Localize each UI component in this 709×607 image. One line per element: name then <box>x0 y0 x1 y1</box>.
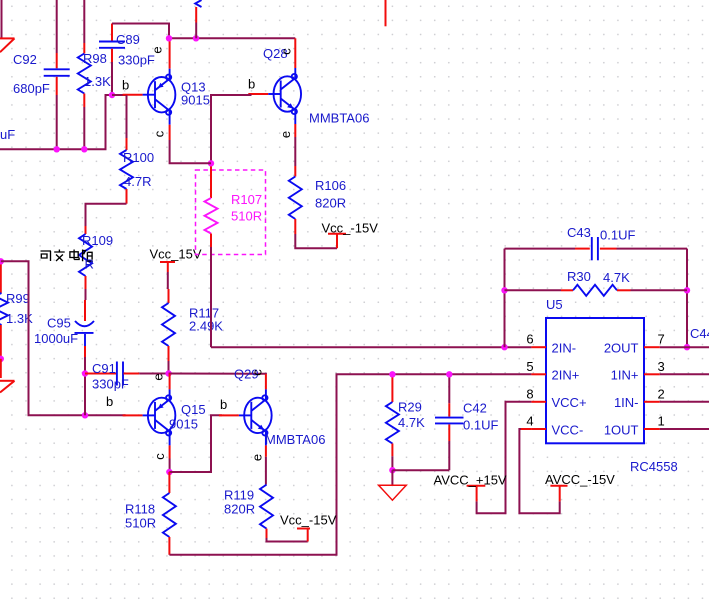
junction <box>446 371 452 377</box>
wire C95-C91 column <box>84 374 86 416</box>
wire C42 bottom <box>392 469 449 471</box>
svg-text:4.7R: 4.7R <box>124 174 151 189</box>
svg-text:b: b <box>122 78 129 93</box>
capacitor C42 0.1UF <box>435 374 498 470</box>
svg-text:C91: C91 <box>92 361 116 376</box>
wire R118 bottom to rail B <box>169 374 531 555</box>
resistor R119 820R <box>224 457 273 538</box>
ic U5 RC4558 <box>526 297 677 474</box>
resistor R117 2.49K <box>162 289 223 374</box>
capacitor C92 <box>13 0 70 149</box>
junction <box>54 146 60 152</box>
svg-text:Vcc_-15V: Vcc_-15V <box>322 221 379 236</box>
svg-text:Vcc_-15V: Vcc_-15V <box>280 513 337 528</box>
resistor R100 4.7R <box>120 95 154 204</box>
port arrow left-top <box>0 37 15 39</box>
svg-text:C95: C95 <box>47 316 71 331</box>
svg-text:c: c <box>152 453 167 460</box>
junction <box>166 35 172 41</box>
wire rail pin6 y347 <box>211 346 531 348</box>
svg-text:c: c <box>250 369 265 376</box>
power Vcc_15V <box>150 247 202 290</box>
svg-text:C92: C92 <box>13 52 37 67</box>
svg-text:330pF: 330pF <box>92 377 129 392</box>
junction <box>165 370 171 376</box>
capacitor C95 1000uF <box>34 300 94 374</box>
transistor Q15 9015 <box>123 374 206 459</box>
svg-text:MMBTA06: MMBTA06 <box>265 432 325 447</box>
svg-text:3: 3 <box>658 359 665 374</box>
wire Q13 collector to junction <box>170 140 211 163</box>
svg-text:1IN-: 1IN- <box>614 395 639 410</box>
svg-text:9015: 9015 <box>181 93 210 108</box>
wire pin1 out <box>660 428 709 430</box>
capacitor C91 330pF <box>85 361 169 392</box>
junction <box>684 344 690 350</box>
resistor top stub x196 <box>195 0 201 38</box>
svg-text:e: e <box>150 46 165 53</box>
svg-text:7: 7 <box>658 332 665 347</box>
resistor R107 510R (selected) <box>205 163 263 347</box>
svg-text:R118: R118 <box>125 502 155 517</box>
power Vcc_-15V (R106) <box>295 221 378 249</box>
svg-text:R109: R109 <box>82 233 113 248</box>
svg-text:MMBTA06: MMBTA06 <box>309 111 369 126</box>
svg-text:e: e <box>151 373 166 380</box>
transistor Q28 MMBTA06 <box>248 38 369 137</box>
resistor R29 4.7K <box>386 374 425 470</box>
svg-text:2: 2 <box>658 386 665 401</box>
power Vcc_-15V (Q29) <box>267 513 337 542</box>
junction <box>109 92 115 98</box>
wire pin2 out <box>660 401 709 403</box>
junction <box>0 258 4 264</box>
junction <box>208 160 214 166</box>
svg-text:c: c <box>279 48 294 55</box>
wire rail y373 <box>169 373 266 376</box>
junction <box>82 370 88 376</box>
feedback loop wires <box>504 249 506 348</box>
resistor R98 <box>78 0 111 149</box>
wire red stub top x385 <box>385 0 387 26</box>
svg-text:9015: 9015 <box>169 417 198 432</box>
svg-text:820R: 820R <box>315 196 346 211</box>
svg-text:6: 6 <box>526 332 533 347</box>
svg-text:5: 5 <box>526 359 533 374</box>
power AVCC_-15V <box>545 472 615 501</box>
svg-text:b: b <box>248 77 255 92</box>
svg-text:R30: R30 <box>567 269 591 284</box>
svg-text:AVCC_+15V: AVCC_+15V <box>434 473 507 488</box>
svg-text:1OUT: 1OUT <box>604 422 639 437</box>
svg-text:AVCC_-15V: AVCC_-15V <box>545 472 615 487</box>
svg-text:C42: C42 <box>463 401 487 416</box>
svg-text:U5: U5 <box>546 297 563 312</box>
transistor Q29 MMBTA06 <box>219 367 326 457</box>
power AVCC_+15V <box>434 473 507 502</box>
svg-text:4: 4 <box>526 414 533 429</box>
svg-text:c: c <box>152 130 167 137</box>
wire R100 to R109 <box>86 204 127 226</box>
svg-text:510R: 510R <box>231 209 262 224</box>
wire top-left stub <box>1 0 3 38</box>
svg-text:Vcc_15V: Vcc_15V <box>150 247 202 262</box>
wire pin3 out <box>660 373 709 375</box>
svg-text:2IN-: 2IN- <box>552 341 577 356</box>
svg-text:820R: 820R <box>224 502 255 517</box>
svg-text:330pF: 330pF <box>118 53 155 68</box>
dashed selection box R107 <box>196 170 266 255</box>
wire emitter rail y38 <box>169 37 295 39</box>
wire rail y149 <box>0 95 112 149</box>
svg-text:b: b <box>220 397 227 412</box>
svg-text:C89: C89 <box>116 32 140 47</box>
svg-text:RC4558: RC4558 <box>630 459 678 474</box>
junction <box>501 287 507 293</box>
junction <box>501 344 507 350</box>
ground <box>379 470 407 500</box>
junction <box>684 287 690 293</box>
svg-text:1.3K: 1.3K <box>84 74 111 89</box>
svg-text:1000uF: 1000uF <box>34 331 78 346</box>
resistor R106 820R <box>289 137 346 234</box>
svg-text:2OUT: 2OUT <box>604 341 639 356</box>
svg-text:uF: uF <box>0 127 15 142</box>
svg-text:R107: R107 <box>231 192 262 207</box>
capacitor C43 0.1UF <box>567 225 635 260</box>
resistor R109 (variable) <box>79 226 113 300</box>
resistor R99 1.3K <box>0 261 33 359</box>
svg-text:C44: C44 <box>690 326 709 341</box>
svg-text:1: 1 <box>658 414 665 429</box>
resistor R30 4.7K <box>505 269 688 296</box>
svg-text:4.7K: 4.7K <box>398 415 425 430</box>
svg-text:2.49K: 2.49K <box>189 319 223 334</box>
svg-text:R106: R106 <box>315 178 346 193</box>
transistor Q13 9015 <box>123 38 210 140</box>
svg-text:C43: C43 <box>567 225 591 240</box>
wire pin7 out <box>660 346 709 348</box>
junction <box>193 35 199 41</box>
svg-text:b: b <box>106 394 113 409</box>
wire Q15 collector <box>169 459 171 473</box>
wire pin8 to AVCC_+15V <box>477 402 532 513</box>
junction <box>81 146 87 152</box>
svg-text:0.1UF: 0.1UF <box>600 228 635 243</box>
junction <box>389 467 395 473</box>
resistor R118 510R <box>125 472 176 555</box>
svg-text:R99: R99 <box>6 291 30 306</box>
wire to Q29 base <box>169 415 222 472</box>
wire base rail to Q15 <box>85 414 126 416</box>
capacitor C89 <box>99 24 169 96</box>
wire pin4 to AVCC_-15V <box>521 428 531 430</box>
port arrow left-bottom <box>0 359 2 378</box>
junction <box>389 371 395 377</box>
svg-text:e: e <box>250 454 265 461</box>
svg-text:R98: R98 <box>83 51 107 66</box>
svg-text:VCC+: VCC+ <box>552 395 587 410</box>
svg-text:4.7K: 4.7K <box>603 270 630 285</box>
svg-text:R29: R29 <box>398 400 422 415</box>
svg-text:2IN+: 2IN+ <box>552 368 580 383</box>
svg-text:R119: R119 <box>224 488 254 503</box>
svg-text:R: R <box>85 257 94 272</box>
svg-text:Q15: Q15 <box>181 402 206 417</box>
svg-text:1IN+: 1IN+ <box>611 368 639 383</box>
svg-text:VCC-: VCC- <box>552 422 584 437</box>
svg-text:510R: 510R <box>125 516 156 531</box>
wire Q28 base <box>211 95 252 163</box>
svg-text:680pF: 680pF <box>13 81 50 96</box>
junction <box>0 356 4 362</box>
text 可变电阻 <box>41 250 93 262</box>
svg-text:8: 8 <box>526 386 533 401</box>
svg-text:0.1UF: 0.1UF <box>463 418 498 433</box>
wire left base rail <box>1 261 85 415</box>
junction <box>166 469 172 475</box>
wire Q13 base <box>112 94 126 96</box>
svg-text:e: e <box>278 131 293 138</box>
svg-text:R100: R100 <box>123 150 154 165</box>
junction <box>82 412 88 418</box>
